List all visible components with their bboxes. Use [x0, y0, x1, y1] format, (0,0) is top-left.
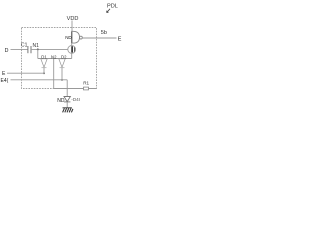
wire capacitor to transistor gate: [31, 48, 68, 50]
output wire: [82, 37, 116, 39]
wire diode D3 to ground: [66, 102, 68, 108]
svg-text:ND: ND: [65, 35, 72, 40]
wire VDD down to gate: [71, 21, 73, 32]
node N1 junction: [37, 48, 39, 50]
diode D2: [59, 59, 65, 68]
svg-text:D: D: [5, 48, 9, 54]
rail wire: [38, 58, 72, 60]
wire diode D2 down: [61, 68, 63, 80]
capacitor C1: [28, 46, 31, 53]
wire transistor to rail: [71, 53, 73, 58]
leader R1: [84, 87, 89, 90]
svg-text:R1: R1: [83, 81, 89, 86]
diode D3: [64, 97, 70, 102]
svg-text:E: E: [2, 71, 6, 77]
transistor P1 (circle): [68, 46, 76, 54]
dashed block boundary PDL: [22, 28, 97, 89]
svg-text:N1: N1: [33, 43, 40, 49]
wire diode D1 down: [43, 68, 45, 73]
wire corner down to diode D3: [66, 80, 68, 97]
wire input D to capacitor: [11, 48, 28, 50]
wire input E: [7, 72, 44, 74]
diode D1: [41, 59, 47, 68]
wire gate to transistor P1: [71, 43, 73, 46]
wire mid rail down: [53, 59, 55, 89]
svg-text:ND: ND: [57, 98, 65, 104]
svg-text:-D4I: -D4I: [71, 97, 80, 102]
svg-text:C1: C1: [21, 43, 28, 49]
svg-text:VDD: VDD: [67, 16, 79, 22]
gate ND (with bubble): [72, 31, 83, 43]
ground: [63, 108, 73, 113]
leader arrow for PDL: [107, 9, 110, 13]
wire node N1 down: [37, 49, 39, 58]
junction diode D1 / wire E: [43, 72, 45, 74]
svg-text:E: E: [118, 37, 122, 43]
svg-text:5b: 5b: [101, 30, 107, 36]
wire bottom to right: [54, 88, 97, 90]
svg-text:E4(: E4(: [1, 78, 9, 84]
wire input E4 to corner: [11, 79, 68, 81]
junction diode D2 / wire E4: [61, 79, 63, 81]
svg-text:PDL: PDL: [107, 3, 118, 9]
